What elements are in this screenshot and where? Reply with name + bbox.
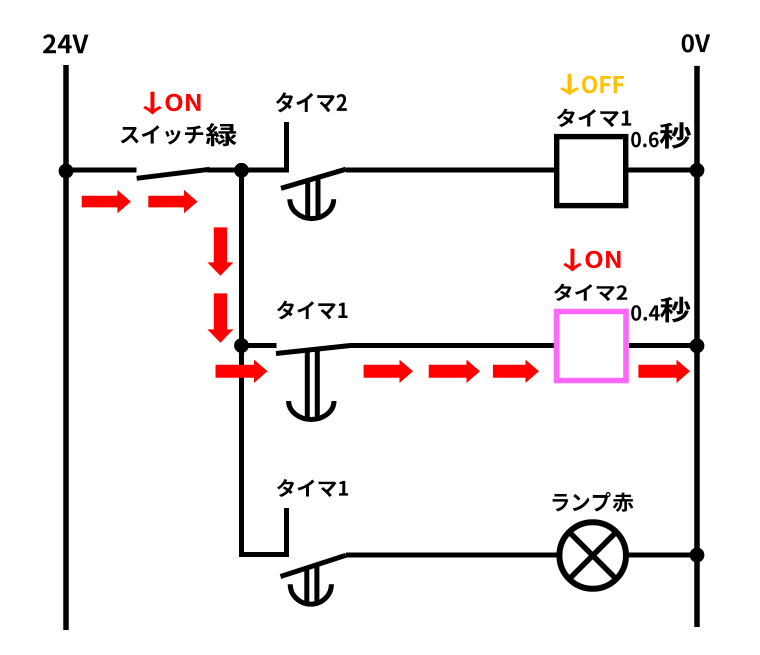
label 0V supply [682, 34, 711, 52]
label lamp ランプ赤 (red lamp) [553, 492, 634, 512]
node C junction dot right rail rung1 [690, 163, 705, 178]
current arrow branch down #1 [207, 227, 233, 275]
label contact タイマ1 rung2 [277, 301, 348, 320]
contact T1 rung3 time-delay cup symbol [304, 568, 309, 604]
switch SW1 blade (closed) [137, 169, 210, 178]
current arrow branch down #2 [207, 293, 233, 342]
label coil タイマ1 [557, 109, 631, 127]
wire rung1 left rail to switch [66, 168, 137, 173]
contact T2 terminal stub [284, 122, 289, 173]
label switch スイッチ緑 (green switch) [121, 123, 237, 146]
lamp L1 circle [559, 522, 626, 589]
current arrow rung1 #2 [148, 190, 197, 213]
contact T2 blade (open) [281, 169, 346, 188]
current arrow rung2 #4 [493, 360, 539, 383]
annotation ON for coil T2 [563, 249, 620, 272]
wire rung3 lamp to right rail [626, 553, 697, 558]
timer coil T2 box (pink, energized) [557, 312, 627, 381]
node B junction dot rung1 branch [234, 163, 249, 178]
node D junction dot branch rung2 [234, 338, 249, 353]
current arrow rung2 #5 after coil [638, 360, 690, 383]
contact T1 rung2 time-delay cup symbol [305, 350, 310, 418]
contact T2 time-delay cup symbol [305, 181, 310, 219]
annotation ON for switch [143, 92, 200, 115]
timer coil T1 box [557, 137, 626, 206]
right power rail 0V bus [694, 66, 700, 627]
annotation OFF for contact T2 [560, 74, 624, 95]
contact T1 rung3 terminal stub [284, 508, 289, 557]
node F junction dot right rail rung3 [690, 548, 705, 563]
wire rung1 switch to timer2 contact [207, 168, 289, 173]
contact T1 rung2 blade (closed) [276, 346, 351, 354]
lamp L1 cross [569, 532, 616, 579]
label contact タイマ2 [276, 92, 347, 112]
wire rung1 coil to right rail [627, 168, 697, 173]
label contact タイマ1 rung3 [277, 479, 348, 497]
wire rung3 contact to lamp [346, 553, 560, 558]
contact T1 rung3 blade (open) [281, 555, 347, 576]
node E junction dot right rail rung2 [690, 338, 705, 353]
current arrow rung2 #1 (crossing branch) [216, 360, 268, 383]
node A junction dot left rail [59, 164, 74, 179]
value 0.6秒 timer T1 setting [631, 122, 691, 148]
wire rung1 contact to coil T1 [346, 168, 556, 173]
current arrow rung2 #2 [364, 360, 413, 383]
wire rung2 branch to contact T1 [242, 343, 277, 348]
current arrow rung2 #3 [429, 360, 480, 383]
label coil タイマ2 rung2 [554, 284, 627, 301]
wire branch vertical with corner to rung3 [242, 170, 290, 555]
wire rung2 coil to right rail [629, 343, 697, 348]
label 24V supply [43, 34, 88, 53]
value 0.4秒 timer T2 setting [631, 297, 690, 323]
left power rail 24V bus [63, 65, 69, 630]
current arrow rung1 #1 [82, 190, 131, 213]
wire rung2 contact to coil T2 [350, 343, 556, 348]
